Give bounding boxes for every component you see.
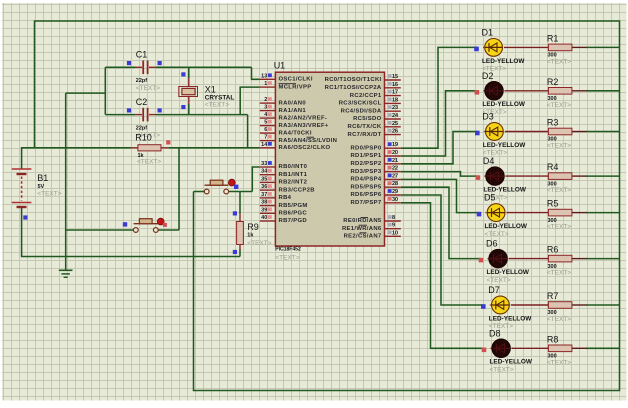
svg-text:RE2/CS/AN7: RE2/CS/AN7 bbox=[344, 234, 382, 240]
svg-text:LED-YELLOW: LED-YELLOW bbox=[487, 269, 530, 276]
svg-text:C1: C1 bbox=[136, 50, 148, 60]
svg-text:RA0/AN0: RA0/AN0 bbox=[279, 100, 307, 106]
svg-text:22: 22 bbox=[392, 166, 398, 172]
svg-text:<TEXT>: <TEXT> bbox=[275, 254, 299, 261]
svg-text:LED-YELLOW: LED-YELLOW bbox=[482, 58, 525, 65]
svg-text:36: 36 bbox=[261, 184, 267, 190]
svg-text:30: 30 bbox=[392, 197, 398, 203]
svg-text:22pf: 22pf bbox=[136, 125, 147, 131]
svg-text:25: 25 bbox=[392, 121, 398, 127]
svg-text:RD5/PSP5: RD5/PSP5 bbox=[350, 184, 381, 190]
svg-text:OSC1/CLKI: OSC1/CLKI bbox=[279, 77, 313, 83]
svg-text:27: 27 bbox=[392, 173, 398, 179]
svg-text:13: 13 bbox=[261, 73, 267, 79]
svg-text:R8: R8 bbox=[547, 334, 559, 344]
svg-text:<TEXT>: <TEXT> bbox=[547, 187, 571, 194]
svg-text:8: 8 bbox=[392, 215, 395, 221]
svg-text:38: 38 bbox=[261, 200, 267, 206]
svg-text:D7: D7 bbox=[488, 285, 500, 295]
svg-text:<TEXT>: <TEXT> bbox=[547, 224, 571, 231]
svg-text:<TEXT>: <TEXT> bbox=[547, 58, 571, 65]
svg-text:5: 5 bbox=[264, 120, 267, 126]
svg-text:LED-YELLOW: LED-YELLOW bbox=[485, 223, 528, 230]
svg-text:21: 21 bbox=[392, 158, 398, 164]
svg-text:RB4: RB4 bbox=[279, 195, 292, 201]
svg-text:RD4/PSP4: RD4/PSP4 bbox=[350, 177, 381, 183]
svg-text:34: 34 bbox=[261, 169, 268, 175]
svg-text:RC7/RX/DT: RC7/RX/DT bbox=[348, 132, 382, 138]
svg-text:RA1/AN1: RA1/AN1 bbox=[279, 108, 307, 114]
svg-text:RD1/PSP1: RD1/PSP1 bbox=[350, 153, 381, 159]
svg-text:LED-YELLOW: LED-YELLOW bbox=[489, 315, 532, 322]
svg-text:D5: D5 bbox=[484, 193, 496, 203]
svg-text:<TEXT>: <TEXT> bbox=[487, 277, 511, 284]
svg-text:RA5/AN4/SS/LVDIN: RA5/AN4/SS/LVDIN bbox=[279, 138, 338, 144]
svg-text:RB5/PGM: RB5/PGM bbox=[279, 203, 308, 209]
svg-text:RC4/SDI/SDA: RC4/SDI/SDA bbox=[341, 108, 382, 114]
svg-text:RA6/OSC2/CLKO: RA6/OSC2/CLKO bbox=[279, 145, 331, 151]
svg-text:D8: D8 bbox=[489, 328, 501, 338]
svg-text:24: 24 bbox=[392, 113, 399, 119]
svg-text:<TEXT>: <TEXT> bbox=[490, 367, 514, 374]
svg-text:28: 28 bbox=[392, 181, 398, 187]
svg-text:16: 16 bbox=[392, 82, 398, 88]
svg-text:1: 1 bbox=[264, 81, 267, 87]
svg-text:2: 2 bbox=[264, 97, 267, 103]
svg-text:C2: C2 bbox=[136, 97, 148, 107]
svg-text:D4: D4 bbox=[483, 156, 495, 166]
svg-text:RC1/T1OSI/CCP2A: RC1/T1OSI/CCP2A bbox=[325, 85, 382, 91]
svg-text:23: 23 bbox=[392, 105, 398, 111]
svg-text:LED-YELLOW: LED-YELLOW bbox=[490, 359, 533, 366]
svg-text:RE1/WR/AN6: RE1/WR/AN6 bbox=[342, 226, 382, 232]
svg-text:<TEXT>: <TEXT> bbox=[205, 102, 229, 109]
svg-text:R1: R1 bbox=[547, 33, 559, 43]
svg-text:<TEXT>: <TEXT> bbox=[547, 316, 571, 323]
svg-text:R2: R2 bbox=[547, 77, 559, 87]
svg-text:D3: D3 bbox=[482, 112, 494, 122]
svg-text:<TEXT>: <TEXT> bbox=[547, 102, 571, 109]
svg-text:17: 17 bbox=[392, 90, 398, 96]
svg-text:D6: D6 bbox=[486, 239, 498, 249]
svg-text:RD6/PSP6: RD6/PSP6 bbox=[350, 192, 381, 198]
svg-text:5V: 5V bbox=[38, 184, 45, 190]
svg-text:18: 18 bbox=[392, 97, 398, 103]
svg-text:40: 40 bbox=[261, 215, 267, 221]
svg-text:RB7/PGD: RB7/PGD bbox=[279, 218, 307, 224]
svg-text:R7: R7 bbox=[547, 291, 559, 301]
svg-text:R6: R6 bbox=[547, 245, 559, 255]
svg-text:RD2/PSP2: RD2/PSP2 bbox=[350, 161, 381, 167]
svg-text:35: 35 bbox=[261, 176, 267, 182]
svg-text:7: 7 bbox=[264, 135, 267, 141]
svg-text:RB2/INT2: RB2/INT2 bbox=[279, 180, 308, 186]
svg-text:RC2/CCP1: RC2/CCP1 bbox=[350, 93, 382, 99]
svg-text:RA3/AN3/VREF+: RA3/AN3/VREF+ bbox=[279, 123, 329, 129]
svg-text:RA2/AN2/VREF-: RA2/AN2/VREF- bbox=[279, 115, 328, 121]
svg-text:<TEXT>: <TEXT> bbox=[547, 270, 571, 277]
svg-text:19: 19 bbox=[392, 142, 398, 148]
svg-text:RC6/TX/CK: RC6/TX/CK bbox=[348, 124, 382, 130]
svg-text:10: 10 bbox=[392, 230, 398, 236]
svg-text:X1: X1 bbox=[205, 85, 216, 95]
svg-text:R10: R10 bbox=[135, 132, 152, 142]
svg-text:15: 15 bbox=[392, 74, 398, 80]
svg-text:<TEXT>: <TEXT> bbox=[485, 231, 509, 238]
svg-text:RC0/T1OSO/T1CKI: RC0/T1OSO/T1CKI bbox=[325, 77, 382, 83]
svg-text:<TEXT>: <TEXT> bbox=[136, 85, 160, 92]
svg-text:RB6/PGC: RB6/PGC bbox=[279, 211, 308, 217]
svg-text:26: 26 bbox=[392, 129, 398, 135]
svg-text:PIC18F452: PIC18F452 bbox=[275, 246, 301, 252]
svg-text:29: 29 bbox=[392, 189, 398, 195]
svg-text:LED-YELLOW: LED-YELLOW bbox=[483, 142, 526, 149]
svg-text:RB1/INT1: RB1/INT1 bbox=[279, 172, 308, 178]
svg-text:33: 33 bbox=[261, 161, 267, 167]
svg-text:R3: R3 bbox=[547, 118, 559, 128]
svg-text:22pf: 22pf bbox=[136, 78, 147, 84]
svg-text:RB3/CCP2B: RB3/CCP2B bbox=[279, 187, 315, 193]
svg-text:RE0/RD/AN5: RE0/RD/AN5 bbox=[343, 218, 382, 224]
svg-text:RC3/SCK/SCL: RC3/SCK/SCL bbox=[339, 101, 382, 107]
svg-text:RD3/PSP3: RD3/PSP3 bbox=[350, 169, 381, 175]
svg-text:LED-YELLOW: LED-YELLOW bbox=[482, 101, 525, 108]
svg-text:9: 9 bbox=[392, 223, 395, 229]
svg-text:20: 20 bbox=[392, 150, 398, 156]
svg-text:3: 3 bbox=[264, 105, 267, 111]
svg-text:6: 6 bbox=[264, 127, 267, 133]
svg-text:<TEXT>: <TEXT> bbox=[37, 191, 61, 198]
svg-text:R4: R4 bbox=[547, 162, 559, 172]
svg-text:D1: D1 bbox=[482, 27, 494, 37]
svg-text:RB0/INT0: RB0/INT0 bbox=[279, 164, 308, 170]
svg-text:RC5/SDO: RC5/SDO bbox=[353, 116, 382, 122]
svg-text:MCLR/VPP: MCLR/VPP bbox=[279, 84, 312, 90]
svg-text:<TEXT>: <TEXT> bbox=[547, 359, 571, 366]
svg-text:RD0/PSP0: RD0/PSP0 bbox=[350, 145, 381, 151]
svg-text:1k: 1k bbox=[247, 232, 254, 238]
svg-text:<TEXT>: <TEXT> bbox=[547, 143, 571, 150]
svg-text:<TEXT>: <TEXT> bbox=[137, 158, 161, 165]
svg-text:RA4/T0CKI: RA4/T0CKI bbox=[279, 130, 312, 136]
svg-text:R5: R5 bbox=[547, 199, 559, 209]
svg-text:<TEXT>: <TEXT> bbox=[247, 240, 271, 247]
svg-text:D2: D2 bbox=[482, 71, 494, 81]
svg-text:B1: B1 bbox=[37, 173, 48, 183]
svg-text:37: 37 bbox=[261, 192, 267, 198]
svg-text:RD7/PSP7: RD7/PSP7 bbox=[350, 200, 381, 206]
svg-text:39: 39 bbox=[261, 207, 267, 213]
svg-text:U1: U1 bbox=[274, 60, 286, 70]
svg-text:14: 14 bbox=[261, 142, 268, 148]
svg-text:R9: R9 bbox=[247, 222, 259, 232]
